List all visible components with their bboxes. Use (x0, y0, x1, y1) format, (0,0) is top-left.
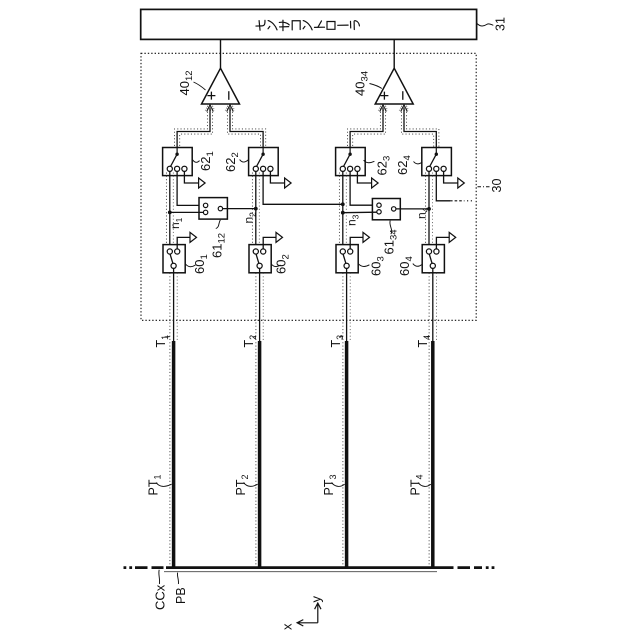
dotted arrowheads flanking U1 inputs (205, 106, 209, 110)
switch 62_1 box (163, 148, 193, 176)
switch 60_4 contact top-right (434, 249, 439, 254)
wire bundle op-amp input x=404.0 to switch x=436.3 dotted flank b (401, 109, 433, 148)
switch 62_1 contact b (175, 166, 180, 171)
arrow 62_1 output (199, 178, 206, 188)
label 62_1 leader (193, 160, 200, 163)
switch 62_3 box (336, 148, 366, 176)
switch 62_2 lever (257, 154, 264, 166)
junction dot on column T3 (from 62_2) (341, 202, 345, 206)
label PT4 leader (418, 483, 431, 487)
node n2 junction dot (254, 207, 258, 211)
wire T2 column main (62 to 60) (255, 171, 257, 249)
switch 62_2 contact c (268, 166, 273, 171)
switch 62_2 contact b (261, 166, 266, 171)
switch 62_1 lever (171, 154, 178, 166)
wire T3 dotted flank lower right (349, 273, 351, 341)
wire bundle op-amp input x=210.0 to switch x=177.1 (177, 108, 210, 148)
controller label text (sensor controller, rotated katakana) (256, 20, 265, 30)
switch 60_2 lever (256, 253, 260, 266)
switch 60_4 lever (429, 253, 433, 266)
wire bundle op-amp input x=230.0 to switch x=263.1 (230, 108, 263, 148)
op-amp U2 (4034) triangle (375, 68, 413, 104)
wire T1 column dotted flank upper right (172, 173, 174, 245)
61_34 contact upper-left (377, 203, 381, 207)
arrow 60_2 branch (276, 232, 283, 242)
arrow 60_1 branch (190, 232, 197, 242)
dashed block 30 border (141, 53, 476, 320)
label 61_34 leader (390, 221, 392, 235)
label PT1 leader (156, 483, 172, 487)
wire bundle op-amp input x=383.0 to switch x=350.1 (350, 108, 383, 148)
label 60_4 leader (413, 264, 422, 267)
arrow into U2 non-inverting input (380, 105, 387, 112)
label 62_4 leader (414, 162, 423, 164)
label 62_3 leader (364, 160, 375, 163)
arrow 60_4 branch (449, 232, 456, 242)
switch 62_4 contact a (426, 166, 431, 171)
61_34 contact lower-left (377, 210, 381, 214)
wire 62_1 output (184, 171, 198, 183)
switch 60_1 box (163, 245, 185, 273)
switch 60_4 pivot contact (430, 263, 435, 268)
changeover box 61_34 (372, 199, 400, 220)
label 30 leader (478, 186, 490, 188)
arrow 60_3 branch (363, 232, 370, 242)
wire op-amp U1 output to controller (220, 39, 222, 68)
op-amp U1 minus input sign (rotated) (228, 91, 230, 100)
wire bundle op-amp input x=210.0 to switch x=177.1 dotted flank a (175, 109, 208, 148)
switch 60_4 contact top-left (426, 249, 431, 254)
wire bundle op-amp input x=404.0 to switch x=436.3 (404, 108, 436, 148)
switch 60_1 pivot contact (171, 263, 176, 268)
wire 62_3 output (357, 171, 371, 183)
wire 61_12 right to node n2 (223, 208, 256, 210)
switch 62_4 box (422, 148, 452, 176)
label 4034 leader (370, 84, 382, 89)
switch 62_4 pivot dot (435, 153, 438, 156)
label 61_12 leader (216, 220, 221, 229)
wire bundle op-amp input x=210.0 to switch x=177.1 dotted flank b (180, 109, 213, 148)
wire bundle op-amp input x=230.0 to switch x=263.1 dotted flank a (233, 109, 266, 148)
switch 62_3 contact a (340, 166, 345, 171)
switch 62_3 pivot dot (348, 153, 351, 156)
arrow into U2 inverting input (401, 105, 408, 112)
label T1 leader tick (165, 336, 170, 338)
switch 62_1 pivot dot (175, 153, 178, 156)
wire bundle op-amp input x=383.0 to switch x=350.1 dotted flank a (348, 109, 381, 148)
op-amp U2 plus input sign (380, 92, 388, 100)
svg-text:CCx: CCx (153, 584, 168, 610)
CCx line right dots (486, 566, 495, 569)
wire T4 dotted flank lower left (428, 273, 430, 567)
label 60_2 leader (271, 264, 280, 267)
wire T4 column dotted flank upper right (432, 173, 434, 245)
label T2 leader tick (253, 336, 256, 338)
wire 60_1 pivot down to electrode (173, 268, 175, 341)
label T3 leader tick (340, 336, 343, 338)
op-amp U1 (4012) triangle (202, 68, 240, 104)
wire T3 column main (62 to 60) (342, 171, 344, 249)
switch 62_2 contact a (253, 166, 258, 171)
wire 60_2 branch to arrow (263, 237, 276, 249)
svg-text:y: y (309, 596, 324, 603)
switch 62_4 lever (430, 154, 437, 166)
switch 62_4 wire from bundle into pivot (435, 147, 437, 153)
switch 62_1 contact c (182, 166, 187, 171)
wire node n1 to 61_12 lower-left (170, 211, 204, 213)
wire T1 dotted flank lower left (169, 273, 171, 567)
switch 60_2 box (249, 245, 271, 273)
switch 60_2 contact top-left (253, 249, 258, 254)
cross conductor CCx line (solid span) (166, 566, 454, 569)
wire T2 column dotted flank upper left (251, 173, 253, 245)
61_12 contact upper-left (203, 203, 207, 207)
switch 62_2 pivot dot (261, 153, 264, 156)
wire 60_2 pivot down to electrode (259, 268, 261, 341)
wire T3 dotted flank lower left (342, 273, 344, 567)
switch 62_4 contact b (434, 166, 439, 171)
wire 62_2 output (270, 171, 284, 183)
op-amp U1 plus input sign (207, 92, 215, 100)
wire 60_4 branch to arrow (436, 237, 449, 249)
node n1 junction dot (168, 211, 172, 215)
switch 60_2 pivot contact (257, 263, 262, 268)
label 60_3 leader (358, 264, 369, 267)
switch 60_4 box (422, 245, 444, 273)
arrow into U1 non-inverting input (207, 105, 214, 112)
switch 60_3 contact top-right (348, 249, 353, 254)
switch 60_3 box (336, 245, 358, 273)
electrode PT1 bar (172, 341, 176, 567)
61_12 contact right (218, 206, 222, 210)
wire 61_34 right to node n4 (396, 208, 429, 210)
svg-text:30: 30 (490, 179, 504, 193)
node n4 junction dot (427, 207, 431, 211)
switch 62_1 contact a (167, 166, 172, 171)
wire T2 column dotted flank upper right (258, 173, 260, 245)
electrode PT4 bar (431, 341, 435, 567)
wire T1 dotted flank lower right (176, 273, 178, 341)
label T4 leader tick (427, 336, 429, 338)
switch 60_1 contact top-left (167, 249, 172, 254)
CCx line left dots (124, 566, 133, 569)
axis y arrow (315, 603, 321, 623)
switch 62_3 contact c (355, 166, 360, 171)
label 60_1 leader (186, 264, 196, 267)
switch 62_2 wire from bundle into pivot (262, 147, 264, 153)
61_12 contact lower-left (203, 210, 207, 214)
switch 62_3 wire from bundle into pivot (349, 147, 351, 153)
wire bundle op-amp input x=230.0 to switch x=263.1 dotted flank b (227, 109, 260, 148)
wire T2 dotted flank lower left (255, 273, 257, 567)
switch 60_2 contact top-right (261, 249, 266, 254)
wire 62_4 continuation dashed (450, 200, 465, 202)
wire op-amp U2 output to controller (393, 39, 395, 68)
arrow into U1 inverting input (227, 105, 234, 112)
svg-text:31: 31 (494, 17, 508, 31)
controller U31 box (141, 9, 477, 39)
electrode PT3 bar (345, 341, 349, 567)
arrow 62_3 output (372, 178, 379, 188)
label PB leader (177, 573, 178, 584)
switch 60_3 pivot contact (344, 263, 349, 268)
wire 62_4 mid contact continuation (436, 171, 450, 200)
switch 60_1 lever (170, 253, 174, 266)
wire T4 column main (62 to 60) (428, 171, 430, 249)
label 62_2 leader (240, 160, 249, 162)
wire bundle op-amp input x=383.0 to switch x=350.1 dotted flank b (353, 109, 386, 148)
label CCx leader (158, 570, 161, 584)
op-amp U2 minus input sign (rotated) (402, 91, 404, 100)
svg-text:x: x (280, 623, 295, 630)
wire node n3 to 61_34 lower-left (343, 211, 377, 214)
wire T1 column dotted flank upper left (165, 173, 167, 245)
switch 60_3 contact top-left (340, 249, 345, 254)
switch 60_1 contact top-right (175, 249, 180, 254)
label PT2 leader (244, 483, 258, 487)
wire 60_3 pivot down to electrode (346, 268, 348, 341)
label 31 leader (477, 24, 493, 26)
switch 62_2 box (249, 148, 279, 176)
switch 62_1 wire from bundle into pivot (176, 147, 178, 153)
wire 62_4 continuation dots (467, 200, 473, 202)
label PT3 leader (332, 483, 345, 487)
CCx line right dashes (458, 566, 483, 569)
wire 62_4 output (444, 171, 458, 183)
wire T3 column dotted flank upper right (345, 173, 347, 245)
dotted arrowheads flanking U2 inputs (378, 106, 382, 110)
wire T2 dotted flank lower right (262, 273, 264, 341)
arrow 62_2 output (285, 178, 292, 188)
label 4012 leader (194, 82, 206, 90)
arrow 62_4 output (458, 178, 465, 188)
wire T3 column dotted flank upper left (338, 173, 340, 245)
switch 62_4 contact c (441, 166, 446, 171)
svg-text:PB: PB (174, 587, 188, 604)
wire 62_2 mid contact across to node n3 area (263, 171, 343, 204)
electrode PT2 bar (258, 341, 262, 567)
wire 60_4 pivot down to electrode (432, 268, 434, 341)
wire 60_1 branch to arrow (177, 237, 190, 249)
wire T1 column main (62 to 60) (169, 171, 171, 249)
changeover box 61_12 (199, 198, 227, 220)
axis x arrow (297, 620, 318, 626)
wire bundle op-amp input x=404.0 to switch x=436.3 dotted flank a (407, 109, 439, 148)
wire 62_1 mid contact to 61_12 upper-left (177, 171, 203, 205)
switch 62_3 contact b (348, 166, 353, 171)
wire 60_3 branch to arrow (350, 237, 363, 249)
wire 62_3 mid contact to 61_34 upper-left (350, 171, 377, 205)
CCx line left dashes (135, 566, 164, 569)
switch 62_3 lever (344, 154, 351, 166)
wire T4 column dotted flank upper left (425, 173, 427, 245)
switch 60_3 lever (343, 253, 347, 266)
node n3 junction dot (341, 211, 345, 215)
panel boundary PB line (164, 571, 437, 573)
61_34 contact right (392, 207, 396, 211)
wire T4 dotted flank lower right (435, 273, 437, 341)
